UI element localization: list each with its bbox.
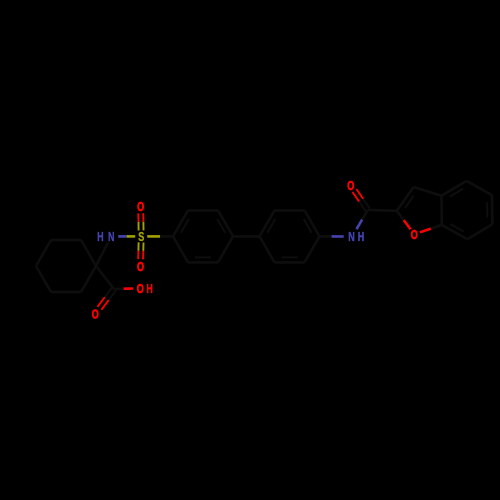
double bond CC=O3 (carboxyl C=O): [98, 288, 117, 310]
svg-text:H: H: [97, 231, 104, 245]
furan bond C3-C3a: [414, 187, 442, 196]
cyclohexane bond CY1-CY2: [81, 266, 96, 292]
benzene ring2 bond R2_5-R2_6: [275, 257, 305, 262]
furan bond C3a-C7a: [440, 196, 443, 225]
benzene ring2 bond R2_3-R2_4: [304, 210, 320, 236]
bond N1-CA (drawn dark): [96, 243, 108, 266]
double bond CAM=O5 (amide C=O): [352, 189, 369, 211]
benzene ring1 bond R1_6-R1_1: [173, 236, 188, 262]
cyclohexane bond CY3-CY4: [36, 266, 51, 292]
svg-text:H: H: [358, 231, 365, 245]
benzene ring1 bond R1_5-R1_6: [188, 257, 218, 262]
svg-text:N: N: [348, 231, 355, 245]
cyclohexane bond CY5-CY6: [51, 239, 81, 242]
benzene ring2 bond R2_6-R2_1: [260, 236, 275, 262]
svg-text:O: O: [347, 179, 354, 193]
svg-text:O: O: [137, 201, 144, 215]
furan bond O1-C7a: [420, 225, 442, 232]
benzofuran benzo bond C6F-C7F: [467, 224, 492, 239]
benzene ring2 bond R2_2-R2_3: [275, 209, 305, 212]
furan double bond C2=C3: [397, 187, 414, 211]
benzofuran benzo bond C3AF-C4F: [442, 181, 467, 197]
benzofuran benzo bond C5F-C6F: [487, 195, 492, 224]
benzene ring1 bond R1_4-R1_5: [218, 236, 233, 262]
bond CC-O4 (C-OH): [114, 287, 133, 290]
svg-text:O: O: [137, 283, 144, 297]
svg-text:O: O: [411, 228, 418, 242]
double bond S1=O2: [138, 242, 143, 259]
bond S1-C(ring1): [147, 235, 173, 238]
biphenyl link bond: [233, 235, 260, 238]
benzene ring1 bond R1_3-R1_4: [217, 210, 233, 236]
benzene ring2 bond R2_1-R2_2: [260, 210, 276, 236]
bond CA-CC: [96, 266, 114, 289]
double bond S1=O1: [138, 213, 143, 230]
svg-text:N: N: [108, 231, 115, 245]
bond CAM-C2(benzofuran): [368, 209, 397, 213]
benzofuran benzo bond C4F-C5F: [467, 181, 492, 195]
svg-text:H: H: [146, 283, 153, 297]
svg-text:O: O: [92, 308, 99, 322]
bond N2-CAM (amide): [357, 210, 368, 229]
cyclohexane bond CY6-CY1: [81, 240, 96, 266]
bond C(ring2)-N2: [320, 235, 344, 238]
svg-text:S: S: [138, 231, 144, 245]
benzene ring1 bond R1_2-R1_3: [188, 209, 218, 212]
benzene ring1 bond R1_1-R1_2: [173, 210, 189, 236]
benzofuran benzo bond C7F-C7AF: [442, 224, 467, 239]
cyclohexane bond CY4-CY5: [36, 240, 51, 266]
bond N1-S1 (sulfonamide N-S): [118, 235, 135, 238]
furan bond C2-O1: [397, 211, 411, 230]
benzene ring2 bond R2_4-R2_5: [305, 236, 320, 262]
cyclohexane bond CY2-CY3: [51, 291, 81, 294]
svg-text:O: O: [137, 261, 144, 275]
